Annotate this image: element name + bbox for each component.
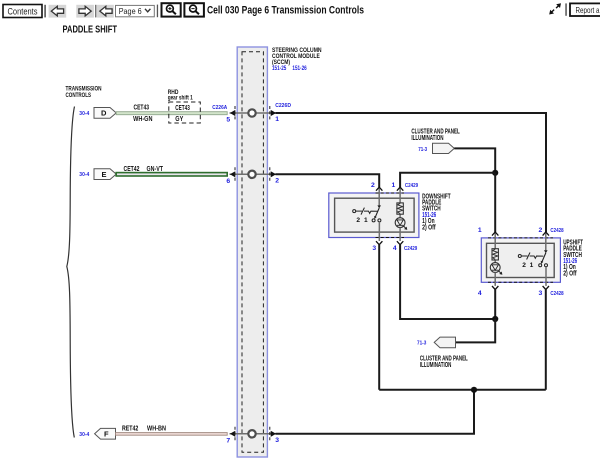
svg-text:151-25: 151-25	[272, 65, 286, 72]
svg-text:2: 2	[356, 217, 360, 224]
upshift switch box	[481, 238, 560, 282]
wire upshift pin4 to illumination return junction	[494, 289, 496, 319]
svg-text:4: 4	[393, 245, 397, 252]
page select dropdown	[116, 5, 155, 16]
svg-text:71-3: 71-3	[418, 147, 427, 153]
svg-text:C2428: C2428	[550, 291, 563, 297]
svg-text:3: 3	[539, 290, 543, 297]
svg-text:WH-BN: WH-BN	[147, 426, 166, 433]
wire RET42 WH-BN	[116, 433, 228, 436]
svg-text:F: F	[104, 430, 109, 439]
svg-text:C2428: C2428	[550, 228, 563, 234]
downshift bottom pin labels	[372, 245, 417, 252]
svg-text:gear shift 1: gear shift 1	[168, 94, 193, 101]
wire upshift pin3 to return bus	[545, 289, 547, 389]
svg-text:3: 3	[275, 437, 279, 444]
toolbar separator 2	[95, 5, 96, 18]
CLUSTER ILLUMINATION (bottom) label	[420, 356, 468, 369]
downshift pin 1 arrow	[397, 187, 403, 203]
wire SCCM pin3 to return bus	[276, 390, 475, 434]
svg-text:C2429: C2429	[405, 183, 418, 189]
svg-text:D: D	[101, 109, 107, 118]
svg-text:ILLUMINATION: ILLUMINATION	[420, 362, 452, 369]
downshift label	[422, 193, 451, 231]
upshift bottom pin labels	[478, 290, 564, 297]
svg-text:71-3: 71-3	[417, 340, 426, 346]
svg-text:30-4: 30-4	[79, 432, 90, 438]
svg-text:4: 4	[478, 290, 482, 297]
downshift LED	[395, 218, 407, 241]
RHD dashed option box	[169, 102, 201, 123]
wire junction to downshift pin1	[400, 173, 495, 187]
connector arrow 71-3 bottom	[434, 337, 455, 348]
contents button	[3, 5, 42, 18]
svg-text:C2429: C2429	[404, 246, 417, 252]
CLUSTER ILLUMINATION (top) label	[411, 129, 460, 142]
expand icon	[549, 3, 561, 14]
svg-text:1: 1	[478, 227, 482, 234]
svg-text:3: 3	[372, 245, 376, 252]
toolbar separator 1	[44, 5, 46, 18]
back button	[49, 5, 67, 18]
node junction return bus	[471, 387, 477, 393]
wire junction to upshift pin1	[494, 173, 496, 232]
svg-text:2) Off: 2) Off	[563, 270, 577, 277]
svg-text:30-4: 30-4	[79, 111, 90, 117]
downshift pin 2 arrow	[376, 187, 382, 205]
connector D	[94, 108, 116, 119]
SCCM crossing row D	[230, 106, 277, 120]
transmission controls label	[66, 86, 102, 100]
upshift resistor	[492, 248, 498, 263]
svg-text:5: 5	[226, 117, 230, 124]
svg-text:2: 2	[522, 262, 526, 269]
wire CET42 GN-VT	[116, 173, 227, 176]
svg-text:CET43: CET43	[134, 105, 150, 112]
toolbar separator 4	[565, 3, 567, 15]
svg-text:Report a: Report a	[576, 5, 600, 15]
RHD option label	[168, 89, 193, 101]
svg-text:2) Off: 2) Off	[422, 224, 436, 231]
svg-text:CONTROLS: CONTROLS	[66, 92, 92, 99]
connector arrow 71-3 top	[433, 143, 455, 153]
svg-text:1: 1	[364, 217, 368, 224]
svg-text:ILLUMINATION: ILLUMINATION	[411, 135, 443, 142]
SCCM module box	[237, 47, 267, 457]
svg-text:C226D: C226D	[275, 103, 291, 109]
SCCM crossing row E	[230, 167, 277, 181]
svg-text:7: 7	[226, 437, 230, 444]
svg-text:PADDLE SHIFT: PADDLE SHIFT	[63, 24, 118, 36]
report button (clipped)	[570, 3, 600, 16]
wire SCCM pin2 to downshift pin2	[276, 174, 380, 187]
wire downshift pin3 to return bus	[378, 245, 380, 390]
brace (transmission controls group)	[67, 107, 75, 438]
upshift pin 3 arrow	[543, 286, 549, 290]
wire 71-3 to junction	[454, 148, 495, 172]
upshift label	[563, 239, 583, 277]
downshift pin 4 arrow	[397, 241, 403, 245]
node junction illumination return	[492, 316, 498, 322]
SCCM crossing row F	[230, 427, 277, 441]
back-to-page button	[97, 5, 114, 18]
downshift switch box	[329, 193, 419, 238]
svg-text:2: 2	[275, 177, 279, 184]
upshift pin 4 arrow	[492, 286, 498, 290]
wire SCCM pin1 to upshift pin2	[276, 113, 547, 232]
node junction illumination feed	[492, 170, 498, 176]
upshift LED	[490, 263, 502, 286]
upshift pin 1 arrow	[492, 232, 498, 248]
svg-text:C226A: C226A	[212, 105, 227, 111]
wire downshift pin4 to illumination return	[400, 245, 495, 319]
svg-text:1: 1	[530, 262, 534, 269]
upshift top pin labels	[478, 227, 564, 234]
connector E	[94, 169, 116, 180]
svg-text:2: 2	[539, 227, 543, 234]
svg-text:Cell 030 Page 6 Transmission C: Cell 030 Page 6 Transmission Controls	[207, 5, 364, 17]
downshift switch symbol	[353, 205, 381, 241]
svg-text:1: 1	[392, 182, 396, 189]
svg-text:151-26: 151-26	[292, 65, 306, 72]
svg-text:Page 6: Page 6	[119, 6, 142, 16]
svg-text:E: E	[102, 170, 107, 179]
svg-text:6: 6	[226, 178, 230, 185]
downshift pin 3 arrow	[376, 241, 382, 245]
downshift top pin labels	[371, 182, 418, 189]
SCCM label	[272, 47, 322, 72]
return bus wire	[379, 389, 546, 391]
wire CET43 WH-GN	[116, 112, 227, 115]
upshift pin 2 arrow	[543, 232, 549, 250]
wire junction to 71-3 bottom	[456, 319, 496, 342]
svg-text:WH-GN: WH-GN	[133, 116, 152, 123]
downshift resistor	[397, 203, 403, 218]
svg-text:2: 2	[371, 182, 375, 189]
svg-text:RET42: RET42	[122, 426, 138, 433]
toolbar separator 3	[157, 5, 158, 18]
upshift switch symbol	[518, 250, 547, 286]
zoom out button	[184, 3, 204, 16]
svg-text:GY: GY	[175, 116, 183, 123]
svg-text:CET43: CET43	[175, 105, 190, 112]
svg-text:1: 1	[275, 116, 279, 123]
svg-text:30-4: 30-4	[79, 172, 90, 178]
svg-text:Contents: Contents	[8, 6, 38, 16]
zoom in button	[162, 3, 181, 16]
connector F	[95, 428, 116, 439]
forward button	[76, 5, 94, 18]
